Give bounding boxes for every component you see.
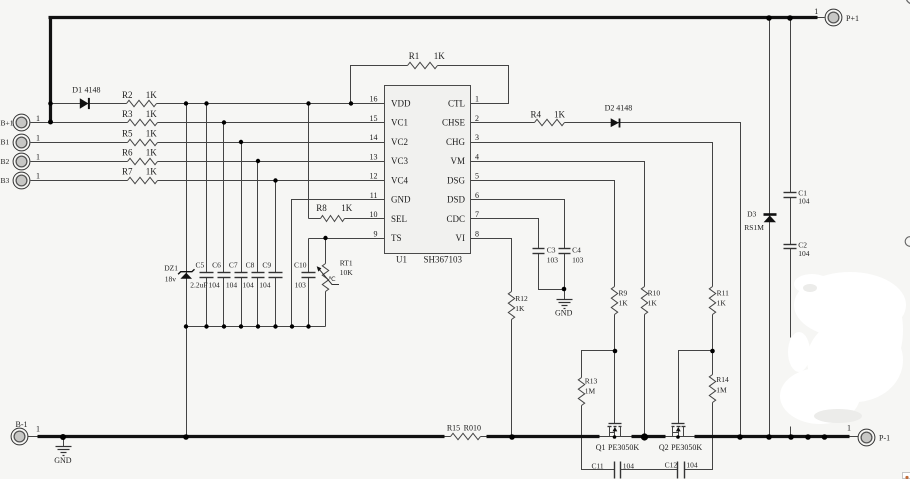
resistor R1 1K feedback loop <box>351 51 509 103</box>
svg-text:R5: R5 <box>122 128 133 138</box>
svg-text:B2: B2 <box>1 157 10 166</box>
resistor R3 1K <box>122 109 157 126</box>
resistor R7 1K <box>122 167 157 184</box>
svg-text:10: 10 <box>370 210 378 219</box>
svg-text:3: 3 <box>475 133 479 142</box>
diode D3 RS1M <box>744 18 776 437</box>
svg-text:SH367103: SH367103 <box>424 254 463 264</box>
capacitor C5 2.2uF <box>190 104 213 327</box>
svg-text:16: 16 <box>370 95 378 104</box>
resistor R6 1K <box>122 148 157 165</box>
svg-text:14: 14 <box>370 133 378 142</box>
svg-text:5: 5 <box>475 172 479 181</box>
svg-text:1K: 1K <box>146 109 158 119</box>
capacitor C2 104 <box>784 241 810 258</box>
resistor R2 1K <box>122 90 157 107</box>
terminal B+1 <box>1 114 41 131</box>
svg-text:2: 2 <box>475 114 479 123</box>
capacitor C11 104 <box>591 461 634 478</box>
svg-text:D2: D2 <box>605 104 615 113</box>
svg-text:SEL: SEL <box>391 214 407 224</box>
svg-text:DSD: DSD <box>447 195 466 205</box>
svg-text:1: 1 <box>847 424 851 433</box>
svg-text:9: 9 <box>374 229 378 238</box>
svg-text:1: 1 <box>36 114 40 123</box>
terminal B2 <box>1 153 41 170</box>
svg-text:CDC: CDC <box>446 214 465 224</box>
svg-text:1K: 1K <box>146 148 158 158</box>
terminal P+1 <box>814 7 859 26</box>
svg-text:1K: 1K <box>434 51 446 61</box>
svg-text:Q1: Q1 <box>596 443 606 452</box>
resistor R13 1M <box>578 376 597 405</box>
wire DZ1 rail to B- bus <box>186 327 188 437</box>
capacitor C6 104 <box>208 123 230 327</box>
svg-text:R9: R9 <box>619 288 628 297</box>
svg-text:TS: TS <box>391 233 402 243</box>
wire B- bus thin segments through Q1/Q2 <box>28 436 859 438</box>
capacitor C3 103 <box>533 246 559 265</box>
svg-text:R14: R14 <box>716 375 729 384</box>
svg-text:R1: R1 <box>409 51 420 61</box>
svg-text:℃: ℃ <box>328 276 336 283</box>
svg-text:GND: GND <box>555 309 573 318</box>
svg-text:4148: 4148 <box>616 104 632 113</box>
svg-text:4148: 4148 <box>85 85 101 94</box>
svg-text:1: 1 <box>36 424 40 433</box>
svg-text:D1: D1 <box>72 85 82 94</box>
svg-text:CTL: CTL <box>448 99 465 109</box>
capacitor C8 104 <box>242 162 264 327</box>
capacitor C9 104 <box>259 181 282 327</box>
svg-text:C3: C3 <box>547 246 556 255</box>
wire TS pin 9 row <box>309 239 385 273</box>
wire capacitor common rail <box>187 326 326 328</box>
zener DZ1 18v <box>164 104 194 327</box>
U1 left pin numbers 16..9 <box>370 95 378 239</box>
svg-text:104: 104 <box>686 461 698 470</box>
terminal P-1 <box>847 424 890 446</box>
svg-text:10K: 10K <box>340 268 354 277</box>
svg-text:1K: 1K <box>146 167 158 177</box>
svg-text:1K: 1K <box>648 299 658 308</box>
resistor R4 1K <box>530 109 565 125</box>
svg-text:C6: C6 <box>212 261 221 270</box>
svg-text:C12: C12 <box>665 461 678 470</box>
transistor Q2 PE3050K <box>659 424 703 453</box>
svg-text:R12: R12 <box>515 294 528 303</box>
svg-text:104: 104 <box>226 281 238 290</box>
svg-text:C7: C7 <box>229 261 238 270</box>
svg-text:1K: 1K <box>146 128 158 138</box>
resistor R5 1K <box>122 128 157 145</box>
svg-text:12: 12 <box>370 172 378 181</box>
svg-text:RS1M: RS1M <box>744 223 764 232</box>
U1 left pin labels <box>391 99 411 244</box>
resistor R11 1K <box>709 287 729 315</box>
svg-text:DZ1: DZ1 <box>164 263 178 272</box>
wire CHSE pin 2 net <box>471 123 741 437</box>
svg-text:C4: C4 <box>572 246 581 255</box>
transistor Q1 PE3050K <box>596 424 640 453</box>
wire VC3 row (B2 to pin 13) <box>31 161 385 163</box>
svg-text:C8: C8 <box>246 261 255 270</box>
svg-text:VI: VI <box>456 233 466 243</box>
svg-text:1M: 1M <box>716 385 727 394</box>
svg-text:PE3050K: PE3050K <box>608 443 639 452</box>
svg-text:R2: R2 <box>122 90 133 100</box>
svg-text:VC2: VC2 <box>391 137 408 147</box>
svg-text:C10: C10 <box>294 261 307 270</box>
svg-text:103: 103 <box>572 256 584 265</box>
wire VC1 row (B+1 terminal to pin 15) <box>31 122 385 124</box>
svg-text:VC4: VC4 <box>391 175 409 185</box>
wire Q2 gate branch <box>679 351 713 424</box>
svg-text:7: 7 <box>475 210 479 219</box>
svg-text:C9: C9 <box>262 261 271 270</box>
svg-text:1: 1 <box>36 153 40 162</box>
svg-text:104: 104 <box>798 249 810 258</box>
svg-text:103: 103 <box>295 281 307 290</box>
svg-text:B3: B3 <box>1 176 10 185</box>
svg-text:8: 8 <box>475 229 479 238</box>
ground symbol GND (C3/C4 node) <box>555 300 573 318</box>
svg-text:C5: C5 <box>196 261 205 270</box>
capacitor C12 104 <box>665 461 698 479</box>
thick B+ top bus wire <box>49 16 818 19</box>
wire DSD pin 6 net <box>471 200 565 300</box>
terminal B1 <box>1 133 41 151</box>
svg-text:P-1: P-1 <box>879 434 890 443</box>
svg-text:1K: 1K <box>554 109 566 119</box>
svg-text:1K: 1K <box>341 203 353 213</box>
svg-text:VM: VM <box>450 156 465 166</box>
svg-text:B+1: B+1 <box>1 118 14 127</box>
svg-text:1: 1 <box>36 172 40 181</box>
svg-text:4: 4 <box>475 152 479 161</box>
resistor R10 1K <box>641 287 660 315</box>
svg-text:R3: R3 <box>122 109 133 119</box>
svg-text:P+1: P+1 <box>846 14 859 23</box>
wire VM pin 4 net <box>471 162 645 437</box>
wire CDC pin 7 net <box>471 219 565 290</box>
faint watermark remnants <box>803 284 862 423</box>
svg-text:15: 15 <box>370 114 378 123</box>
svg-text:R10: R10 <box>648 288 661 297</box>
svg-text:RT1: RT1 <box>340 259 353 268</box>
svg-text:104: 104 <box>208 281 220 290</box>
wire VDD row (B+ to pin 16) <box>49 103 385 105</box>
svg-text:13: 13 <box>370 152 378 161</box>
svg-text:GND: GND <box>54 456 72 465</box>
resistor R8 1K <box>316 203 352 222</box>
svg-text:11: 11 <box>370 191 378 200</box>
svg-text:R6: R6 <box>122 148 133 158</box>
thick B- bottom bus wire <box>38 435 850 438</box>
wire VI pin 8 net <box>471 239 512 437</box>
svg-text:D3: D3 <box>747 209 756 218</box>
svg-text:104: 104 <box>798 197 810 206</box>
wire CHG pin 3 net <box>471 143 713 470</box>
svg-text:B1: B1 <box>1 138 10 147</box>
svg-text:GND: GND <box>391 195 411 205</box>
diode D2 4148 <box>605 104 633 128</box>
svg-text:CHG: CHG <box>446 137 466 147</box>
svg-text:103: 103 <box>547 256 559 265</box>
svg-text:R15: R15 <box>447 423 460 432</box>
svg-text:R11: R11 <box>717 288 729 297</box>
svg-text:DSG: DSG <box>447 175 466 185</box>
svg-text:104: 104 <box>259 281 271 290</box>
wire SEL pin 10 row <box>309 218 385 220</box>
resistor R15 R010 (in B- bus) <box>445 423 487 439</box>
svg-text:CHSE: CHSE <box>442 118 466 128</box>
capacitor C7 104 <box>226 143 248 327</box>
U1 right pin labels <box>442 99 466 244</box>
thermistor RT1 10K <box>317 239 354 327</box>
U1 right pin numbers 1..8 <box>475 95 479 239</box>
svg-text:1: 1 <box>814 7 818 16</box>
decorative corner arc top-right <box>906 0 910 4</box>
svg-text:1K: 1K <box>717 299 727 308</box>
decorative arc right edge <box>905 237 910 247</box>
svg-text:6: 6 <box>475 191 479 200</box>
decorative corner icon bottom-right <box>903 473 910 479</box>
wire GND pin 11 row <box>292 200 385 327</box>
wire DSG pin 5 net <box>471 181 615 424</box>
svg-text:R010: R010 <box>464 423 481 432</box>
thick B+ vertical wire (left) <box>49 17 52 122</box>
resistor R14 1M <box>709 375 729 403</box>
svg-text:R8: R8 <box>316 203 327 213</box>
svg-text:R7: R7 <box>122 167 133 177</box>
capacitor C1 104 <box>784 188 810 205</box>
svg-text:Q2: Q2 <box>659 443 669 452</box>
svg-text:VC1: VC1 <box>391 118 408 128</box>
diode D1 4148 <box>72 85 100 109</box>
svg-text:R4: R4 <box>530 109 541 119</box>
junction node dots <box>48 15 827 440</box>
svg-text:1K: 1K <box>515 304 525 313</box>
svg-text:104: 104 <box>242 281 254 290</box>
svg-text:VC3: VC3 <box>391 156 409 166</box>
svg-text:U1: U1 <box>396 254 407 264</box>
svg-text:1: 1 <box>36 133 40 142</box>
wire R13 branch <box>582 351 615 470</box>
terminal B3 <box>1 172 41 189</box>
svg-text:1: 1 <box>475 95 479 104</box>
svg-text:PE3050K: PE3050K <box>671 443 702 452</box>
wire VC2 row (B1 to pin 14) <box>31 142 385 144</box>
svg-text:1K: 1K <box>146 90 158 100</box>
capacitor C4 103 <box>559 246 584 265</box>
resistor R12 1K <box>508 292 528 320</box>
wire C11 to C12 link <box>621 469 678 471</box>
svg-text:1M: 1M <box>585 387 596 396</box>
svg-text:VDD: VDD <box>391 99 411 109</box>
wire C1/C2 branch (partly erased by watermark blob) <box>790 18 792 437</box>
svg-text:2.2uF: 2.2uF <box>190 281 207 290</box>
resistor R9 1K <box>611 287 628 315</box>
svg-text:18v: 18v <box>165 275 177 284</box>
svg-text:B-1: B-1 <box>16 420 28 429</box>
svg-text:R13: R13 <box>585 376 598 385</box>
ground symbol GND (B- bus) <box>54 437 72 466</box>
wire R8 feed from VDD net <box>308 104 310 219</box>
watermark-removal white blob (right side) <box>780 272 906 424</box>
terminal B-1 <box>11 420 40 445</box>
capacitor C10 103 <box>294 239 316 327</box>
svg-text:1K: 1K <box>619 299 629 308</box>
IC U1 SH367103 body <box>385 86 471 265</box>
wire VC4 row (B3 to pin 12) <box>31 180 385 182</box>
svg-text:C11: C11 <box>591 461 603 470</box>
svg-text:104: 104 <box>623 461 635 470</box>
